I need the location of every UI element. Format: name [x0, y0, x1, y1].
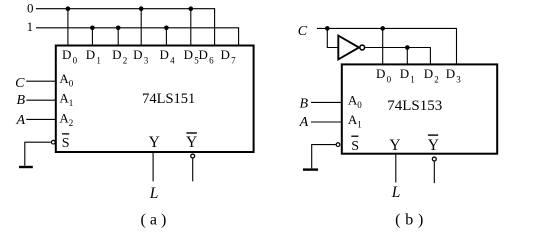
svg-text:C: C: [298, 24, 308, 39]
ground: [303, 168, 318, 170]
wire drop to D1: [406, 48, 408, 65]
wire drop to D5: [190, 9, 192, 46]
wire S-bar to ground: [312, 145, 336, 169]
wire drop to D3: [140, 9, 142, 46]
wire Y output: [152, 153, 154, 182]
wire: logic-1 bus to D1 D2 D4 D7: [36, 28, 239, 46]
strobe bubble: [336, 143, 340, 147]
junction dot C/D0: [380, 26, 385, 31]
svg-text:74LS151: 74LS151: [142, 91, 195, 107]
junction dot D2/1: [116, 26, 121, 31]
inverter bubble: [360, 45, 365, 50]
wire drop to D2: [117, 28, 119, 46]
IC body U1 74LS151: [56, 46, 254, 153]
junction dot C/inverter: [325, 26, 330, 31]
wire drop to D0: [67, 9, 69, 46]
svg-text:( a ): ( a ): [141, 211, 167, 228]
svg-text:1: 1: [27, 19, 34, 34]
strobe bubble: [51, 140, 55, 144]
svg-text:Y: Y: [149, 134, 160, 151]
junction dot D1/1: [90, 26, 95, 31]
wire drop to D4: [165, 28, 167, 46]
svg-text:C: C: [15, 76, 25, 91]
IC body U2 74LS153: [342, 64, 497, 153]
wire drop to D1: [91, 28, 93, 46]
wire drop to D0: [382, 28, 384, 64]
svg-text:A: A: [299, 115, 309, 130]
svg-text:Y: Y: [186, 134, 197, 151]
wire C bus to D0 D3: [317, 28, 457, 64]
svg-text:A: A: [16, 113, 26, 128]
wire B to A0: [311, 101, 342, 103]
wire C-bar bus to D1 D2: [365, 48, 430, 65]
svg-text:0: 0: [27, 0, 34, 15]
inverter G1 triangle: [338, 36, 359, 60]
wire S-bar to ground: [25, 142, 51, 166]
svg-text:74LS153: 74LS153: [387, 98, 442, 114]
wire: logic-0 bus to D0 D3 D5 D6: [36, 9, 215, 46]
svg-text:S: S: [351, 139, 359, 154]
Y-bar bubble: [432, 157, 436, 161]
wire Y-bar output: [433, 162, 435, 184]
svg-text:B: B: [300, 96, 309, 111]
ground: [19, 166, 33, 168]
junction dot D0/0: [66, 6, 71, 11]
svg-text:S: S: [62, 136, 70, 151]
junction dot D5/0: [189, 6, 194, 11]
svg-text:L: L: [391, 184, 401, 201]
junction dot D3/0: [139, 6, 144, 11]
wire Y-bar output: [192, 159, 194, 182]
svg-text:Y: Y: [389, 137, 400, 154]
wire A to A2: [26, 118, 56, 120]
junction dot D4/1: [164, 26, 169, 31]
wire C to A0: [26, 80, 56, 82]
junction dot Cbar/D1: [405, 45, 410, 50]
svg-text:B: B: [17, 93, 26, 108]
svg-text:L: L: [149, 185, 159, 202]
wire A to A1: [311, 121, 342, 123]
wire C down to inverter input: [327, 28, 338, 47]
svg-text:Y: Y: [428, 137, 439, 154]
wire B to A1: [26, 99, 56, 101]
wire Y output: [395, 155, 397, 183]
Y-bar bubble: [191, 154, 195, 158]
svg-text:( b ): ( b ): [395, 211, 424, 228]
